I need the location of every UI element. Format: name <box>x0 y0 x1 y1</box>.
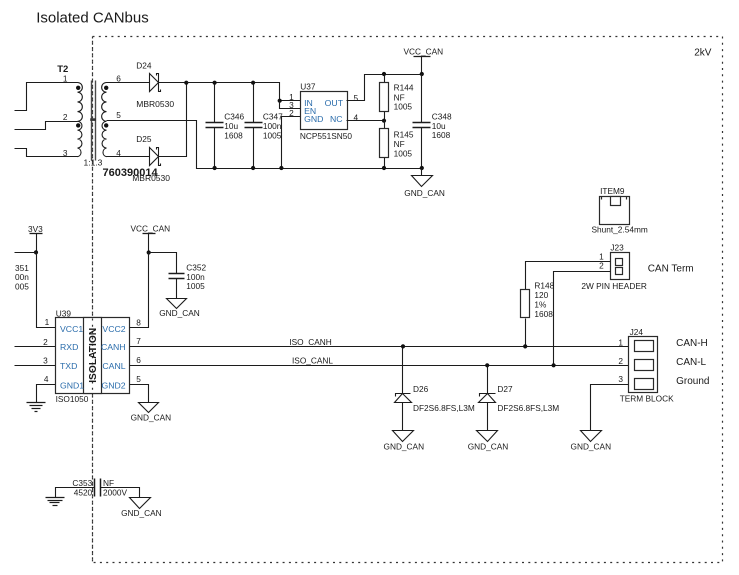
svg-text:VCC_CAN: VCC_CAN <box>131 224 171 234</box>
svg-text:2kV: 2kV <box>694 47 712 58</box>
ground GND_CAN at C353 <box>121 498 162 519</box>
svg-text:CANL: CANL <box>102 361 125 371</box>
svg-text:OUT: OUT <box>325 98 344 108</box>
wire pin2 primary <box>15 122 78 130</box>
diode D24 <box>107 61 187 109</box>
wire VCC_CAN to U39 VCC2 <box>130 253 149 328</box>
svg-text:1005: 1005 <box>186 281 205 291</box>
svg-text:3V3: 3V3 <box>28 224 43 234</box>
svg-text:GND_CAN: GND_CAN <box>384 441 425 451</box>
svg-text:Isolated CANbus: Isolated CANbus <box>36 9 149 26</box>
op-amp U37 regulator NCP551SN50 <box>289 82 358 142</box>
junction D25/D24 <box>184 81 188 85</box>
svg-text:CANH: CANH <box>101 342 126 352</box>
svg-text:RXD: RXD <box>60 342 78 352</box>
resistor R144 <box>380 72 414 123</box>
svg-text:NCP551SN50: NCP551SN50 <box>300 131 353 141</box>
T2 secondary winding <box>102 83 107 157</box>
svg-text:4520: 4520 <box>74 488 93 498</box>
svg-text:6: 6 <box>136 355 141 365</box>
svg-text:DF2S6.8FS,L3M: DF2S6.8FS,L3M <box>497 403 559 413</box>
wire GND pin2 of U37 <box>282 117 301 169</box>
svg-text:Shunt_2.54mm: Shunt_2.54mm <box>592 224 648 234</box>
svg-text:2: 2 <box>63 112 68 122</box>
svg-text:8: 8 <box>136 317 141 327</box>
wire pin5 to ground rail <box>107 121 422 169</box>
svg-text:1005: 1005 <box>394 102 413 112</box>
svg-text:GND_CAN: GND_CAN <box>571 441 612 451</box>
svg-text:D27: D27 <box>497 384 513 394</box>
wire pin6 to D24 <box>107 82 150 84</box>
svg-text:5: 5 <box>116 110 121 120</box>
svg-text:NF: NF <box>103 478 114 488</box>
wire 3V3 to U39 VCC1 <box>37 253 56 328</box>
wire U37 OUT to VCC_CAN <box>347 75 422 101</box>
ground GND_CAN below C352 <box>159 299 200 319</box>
shunt ITEM9 <box>592 186 648 235</box>
wire top rail VCC raw <box>187 83 301 101</box>
svg-text:3: 3 <box>43 356 48 366</box>
wire TXD <box>15 365 56 367</box>
ground GND_CAN below U39 pin5 <box>131 403 172 423</box>
wire U39 GND2 to ground <box>130 385 149 403</box>
svg-text:CAN-L: CAN-L <box>676 357 706 368</box>
svg-text:C347: C347 <box>263 111 283 121</box>
svg-text:3: 3 <box>618 374 623 384</box>
svg-text:ISOLATION: ISOLATION <box>88 328 99 383</box>
isolation boundary dashed box <box>93 37 723 563</box>
svg-text:1: 1 <box>618 337 623 347</box>
svg-text:1608: 1608 <box>534 309 553 319</box>
T2 polarity dot secondary bottom <box>104 123 108 127</box>
capacitor C351 labels (clipped) <box>15 263 29 292</box>
svg-text:1:1.3: 1:1.3 <box>84 157 103 167</box>
svg-text:CAN Term: CAN Term <box>648 263 694 274</box>
svg-text:2000V: 2000V <box>103 488 127 498</box>
junction IN/EN tie <box>278 99 282 103</box>
svg-text:1005: 1005 <box>263 130 282 140</box>
svg-text:ITEM9: ITEM9 <box>600 186 625 196</box>
svg-text:GND_CAN: GND_CAN <box>159 308 200 318</box>
wire net ISO_CANL <box>130 365 629 367</box>
svg-text:1608: 1608 <box>224 130 243 140</box>
wire pin3 primary <box>15 149 78 157</box>
svg-text:Ground: Ground <box>676 376 709 387</box>
ground GND_CAN below J24 pin3 <box>571 431 612 452</box>
svg-text:ISO_CANL: ISO_CANL <box>292 356 333 366</box>
svg-text:GND: GND <box>304 114 323 124</box>
svg-text:U39: U39 <box>56 308 72 318</box>
ground GND_CAN below C348 <box>404 169 445 198</box>
wire EN branch <box>280 101 301 109</box>
isolation boundary vertical dashed line <box>92 37 94 563</box>
svg-text:TERM BLOCK: TERM BLOCK <box>620 394 674 404</box>
svg-text:GND1: GND1 <box>60 380 84 390</box>
resistor R148 <box>521 281 555 349</box>
svg-text:6: 6 <box>116 73 121 83</box>
wire D25 cathode up to top rail <box>159 83 187 157</box>
T2 core bars <box>91 81 93 161</box>
transformer T2 <box>15 64 159 179</box>
svg-text:VCC1: VCC1 <box>60 324 83 334</box>
svg-text:120: 120 <box>534 290 548 300</box>
wire net ISO_CANH <box>130 346 629 348</box>
svg-text:MBR0530: MBR0530 <box>136 99 174 109</box>
wire J23 pin2 to ISO_CANL <box>554 272 611 366</box>
capacitor C352 <box>149 253 207 299</box>
D24 schottky cathode <box>157 74 161 92</box>
svg-text:2W PIN HEADER: 2W PIN HEADER <box>581 281 646 291</box>
wire J23 pin1 to R148 <box>526 262 611 290</box>
svg-text:2: 2 <box>43 337 48 347</box>
D24 triangle <box>150 74 159 92</box>
wire RXD <box>15 346 56 348</box>
svg-text:DF2S6.8FS,L3M: DF2S6.8FS,L3M <box>413 403 475 413</box>
svg-text:1608: 1608 <box>432 130 451 140</box>
svg-text:VCC_CAN: VCC_CAN <box>404 47 444 57</box>
svg-text:R148: R148 <box>534 281 554 291</box>
ground earth at C353 <box>46 498 65 506</box>
svg-text:MBR0530: MBR0530 <box>132 173 170 183</box>
T2 polarity dot primary bottom <box>76 123 80 127</box>
svg-text:TXD: TXD <box>60 361 77 371</box>
power VCC_CAN top <box>404 47 444 77</box>
capacitor C353 isolation <box>56 478 140 498</box>
svg-text:ISO1050: ISO1050 <box>56 394 89 404</box>
ground GND_CAN below D27 <box>468 431 509 452</box>
svg-text:R145: R145 <box>394 129 414 139</box>
IC U39 ISO1050 <box>43 308 141 403</box>
capacitor C347 <box>245 81 284 170</box>
svg-text:D24: D24 <box>136 61 152 71</box>
svg-text:D26: D26 <box>413 384 429 394</box>
resistor R145 <box>380 121 414 171</box>
svg-text:NF: NF <box>394 139 405 149</box>
svg-text:2: 2 <box>618 356 623 366</box>
svg-text:7: 7 <box>136 336 141 346</box>
wire pin1 primary <box>15 83 78 111</box>
connector J24 TERM BLOCK <box>618 327 709 404</box>
T2 core mark <box>90 118 96 121</box>
svg-text:R144: R144 <box>394 83 414 93</box>
wire pin4 to D25 <box>107 156 150 158</box>
capacitor C348 <box>413 75 453 171</box>
svg-text:5: 5 <box>136 374 141 384</box>
svg-text:GND_CAN: GND_CAN <box>468 441 509 451</box>
T2 polarity dot secondary top <box>104 86 108 90</box>
svg-text:CAN-H: CAN-H <box>676 338 708 349</box>
svg-text:GND_CAN: GND_CAN <box>131 412 172 422</box>
connector J23 CAN Term <box>581 243 693 291</box>
svg-text:U37: U37 <box>300 82 316 92</box>
wire J24 pin3 to ground <box>591 385 629 431</box>
wire C351 stub <box>15 252 37 254</box>
svg-text:D25: D25 <box>136 134 152 144</box>
svg-text:ISO_CANH: ISO_CANH <box>289 337 331 347</box>
svg-text:005: 005 <box>15 282 29 292</box>
wire U37 NC stub <box>347 120 385 122</box>
wire D24 cathode to node <box>159 82 187 84</box>
svg-text:1005: 1005 <box>394 149 413 159</box>
power VCC_CAN at U39 <box>131 224 171 255</box>
svg-text:GND2: GND2 <box>101 380 125 390</box>
svg-text:4: 4 <box>44 374 49 384</box>
capacitor C346 <box>206 81 245 170</box>
wire GND1 <box>37 385 56 403</box>
svg-text:5: 5 <box>354 93 359 103</box>
diode D25 <box>107 81 189 183</box>
transistor D26 TVS diode <box>395 344 475 430</box>
D25 triangle <box>150 148 159 166</box>
T2 polarity dot primary top <box>76 86 80 90</box>
transistor D27 TVS diode <box>479 363 560 430</box>
power 3V3 <box>28 224 43 255</box>
svg-text:3: 3 <box>63 148 68 158</box>
svg-text:C346: C346 <box>224 111 244 121</box>
svg-text:2: 2 <box>289 108 294 118</box>
svg-text:GND_CAN: GND_CAN <box>404 188 445 198</box>
svg-text:J24: J24 <box>630 327 644 337</box>
ground earth GND1 <box>27 403 46 412</box>
svg-text:J23: J23 <box>610 243 624 253</box>
D25 schottky cathode <box>157 148 161 166</box>
T2 primary winding <box>78 83 83 157</box>
svg-text:VCC2: VCC2 <box>102 324 125 334</box>
svg-text:1: 1 <box>45 317 50 327</box>
svg-text:NC: NC <box>330 114 343 124</box>
svg-text:GND_CAN: GND_CAN <box>121 508 162 518</box>
ground GND_CAN below D26 <box>384 431 425 452</box>
svg-text:1: 1 <box>63 73 68 83</box>
